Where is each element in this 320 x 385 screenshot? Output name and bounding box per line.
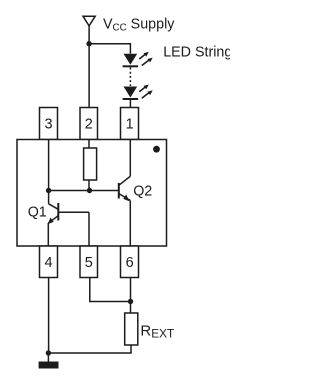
svg-text:Q2: Q2 [133, 184, 152, 200]
svg-text:2: 2 [85, 116, 93, 132]
svg-text:6: 6 [126, 255, 134, 271]
svg-text:5: 5 [85, 255, 93, 271]
svg-text:LED String: LED String [163, 45, 230, 61]
svg-text:1: 1 [126, 116, 134, 132]
svg-text:Q1: Q1 [28, 204, 47, 220]
svg-text:3: 3 [44, 116, 52, 132]
svg-text:4: 4 [44, 255, 52, 271]
